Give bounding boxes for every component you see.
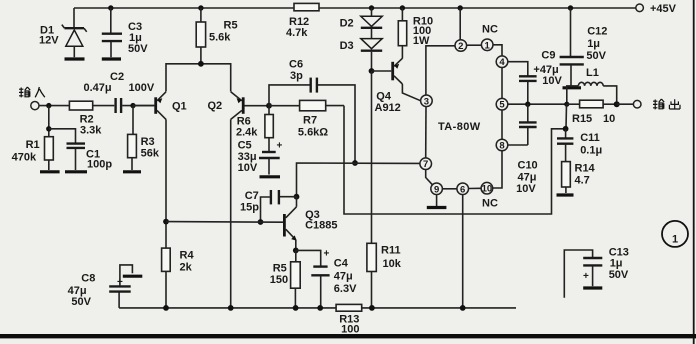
wire Q3 base line <box>166 221 283 224</box>
wire Q2 collector to bottom rail <box>230 119 232 308</box>
svg-text:C7: C7 <box>245 190 259 202</box>
wire driver line to pin7 <box>297 163 420 197</box>
svg-text:2.4k: 2.4k <box>236 127 258 139</box>
svg-text:5.6k: 5.6k <box>209 32 231 44</box>
wire bottom rail left segment <box>119 307 336 309</box>
svg-text:R11: R11 <box>381 245 401 257</box>
svg-text:3: 3 <box>424 96 429 107</box>
wire top supply rail left segment <box>74 7 294 9</box>
svg-text:150: 150 <box>270 274 288 286</box>
junction R11 bottom <box>369 305 375 311</box>
transistor Q4 <box>372 58 421 114</box>
capacitor C11 <box>557 129 602 162</box>
junction R5 150 bottom <box>293 305 299 311</box>
svg-text:0.47μ: 0.47μ <box>84 82 112 94</box>
resistor R12 <box>286 3 319 39</box>
svg-text:R5: R5 <box>273 263 287 275</box>
pin 1 NC <box>481 24 498 52</box>
capacitor C10 <box>516 104 538 195</box>
svg-text:1μ: 1μ <box>610 258 623 270</box>
svg-text:3p: 3p <box>290 70 303 82</box>
svg-text:Q4: Q4 <box>376 91 392 103</box>
diode D3 <box>340 39 383 71</box>
transistor Q2 <box>208 92 270 120</box>
svg-text:+: + <box>583 271 589 282</box>
wire pin8 to C10 <box>508 144 528 146</box>
wire pin10 to pin8 <box>493 151 502 188</box>
ground for C12 <box>563 86 582 89</box>
svg-text:10: 10 <box>603 113 615 125</box>
svg-text:6: 6 <box>460 184 465 195</box>
junction C3 on rail <box>108 5 113 10</box>
junction R1 tap <box>46 103 51 108</box>
svg-text:TA-80W: TA-80W <box>438 121 481 133</box>
svg-text:3.3k: 3.3k <box>80 125 102 137</box>
capacitor C1 <box>49 129 113 171</box>
junction C7 to base line <box>258 219 264 225</box>
svg-text:L1: L1 <box>586 67 599 79</box>
junction C9 C10 on output line <box>525 102 530 107</box>
junction pin6 bottom <box>460 305 466 311</box>
junction C12 on rail <box>568 5 573 10</box>
wire pin6 to pin10 <box>469 187 482 189</box>
junction Q3 emitter node <box>293 248 299 254</box>
junction output node <box>614 101 620 107</box>
svg-text:C1885: C1885 <box>305 220 337 232</box>
svg-text:10: 10 <box>482 184 493 195</box>
svg-text:D3: D3 <box>340 40 354 52</box>
wire pin5 output line <box>508 103 567 105</box>
ground for C8 <box>123 275 143 278</box>
svg-text:7: 7 <box>423 159 428 170</box>
pin 10 NC <box>481 182 498 209</box>
svg-text:100: 100 <box>341 324 359 336</box>
wire bottom rail right segment <box>362 307 516 309</box>
junction R5 on rail <box>198 5 203 10</box>
wire top supply rail right segment <box>319 7 636 9</box>
svg-text:12V: 12V <box>39 35 59 47</box>
label TA-80W <box>438 121 481 133</box>
junction C6 to driver line <box>352 160 358 166</box>
node input terminal 输入 <box>19 87 45 110</box>
svg-text:D2: D2 <box>340 18 354 30</box>
svg-text:R1: R1 <box>26 139 40 151</box>
pin 7 <box>420 158 432 170</box>
svg-text:1: 1 <box>672 234 678 246</box>
svg-text:R15: R15 <box>572 113 592 125</box>
pin 6 <box>457 183 469 195</box>
wire R7 feedback to output node <box>344 106 565 214</box>
zener diode D1 <box>39 8 87 57</box>
junction R3 tap <box>130 103 135 108</box>
svg-text:10V: 10V <box>238 162 258 174</box>
resistor R6 <box>236 106 273 152</box>
capacitor C8 <box>68 265 133 308</box>
resistor R13 <box>336 304 362 335</box>
wire input to R2 <box>39 105 69 107</box>
wire pin7 to pin9 <box>426 170 433 185</box>
junction Q2 collector bottom <box>228 305 234 311</box>
transistor Q3 <box>284 197 337 251</box>
svg-text:A912: A912 <box>375 102 401 114</box>
svg-text:C12: C12 <box>587 26 607 38</box>
svg-text:4.7: 4.7 <box>575 175 590 187</box>
wire pin6 to bottom rail <box>462 195 464 308</box>
node circled 1 marker <box>662 221 688 247</box>
wire Q1 collector / R4 branch <box>165 119 167 248</box>
wire rail to pin2 <box>459 8 461 40</box>
svg-text:NC: NC <box>482 24 498 36</box>
svg-text:C5: C5 <box>238 140 252 152</box>
svg-text:+: + <box>277 141 283 152</box>
svg-text:47μ: 47μ <box>334 271 353 283</box>
page border right <box>693 0 695 344</box>
svg-text:9: 9 <box>434 184 439 195</box>
svg-text:R5: R5 <box>224 20 238 32</box>
wire pin2 to pin1 <box>467 44 482 46</box>
junction R10 on rail <box>400 5 405 10</box>
svg-text:6.3V: 6.3V <box>334 283 357 295</box>
ground for R14 <box>557 193 574 196</box>
wire pin4 to C9 <box>508 62 528 76</box>
junction R6 at Q2 base <box>266 103 272 109</box>
resistor R4 <box>162 248 195 308</box>
ground for pin 9 <box>427 195 447 208</box>
svg-text:R7: R7 <box>303 115 317 127</box>
svg-text:C8: C8 <box>81 273 95 285</box>
junction D2 on rail <box>369 5 374 10</box>
pin 8 <box>496 139 508 151</box>
svg-text:5: 5 <box>499 100 505 111</box>
capacitor C6 <box>269 59 355 164</box>
junction Q3 base tap <box>163 219 169 225</box>
svg-text:10k: 10k <box>383 258 402 270</box>
svg-text:15p: 15p <box>240 202 259 214</box>
svg-text:R4: R4 <box>180 250 195 262</box>
svg-text:47μ: 47μ <box>518 172 537 184</box>
diode D2 <box>340 8 383 38</box>
svg-text:C4: C4 <box>334 258 349 270</box>
svg-text:Q2: Q2 <box>208 100 223 112</box>
svg-text:10V: 10V <box>542 75 562 87</box>
svg-text:1: 1 <box>485 40 491 51</box>
pin 9 <box>431 183 443 195</box>
svg-text:4: 4 <box>499 57 505 68</box>
resistor R3 <box>128 106 160 170</box>
svg-text:Q1: Q1 <box>172 101 187 113</box>
resistor R5 150 <box>270 250 300 308</box>
svg-text:+: + <box>324 249 330 260</box>
transistor Q1 <box>133 92 187 120</box>
resistor R14 <box>562 162 596 193</box>
wire differential pair emitter rail <box>166 64 231 92</box>
svg-text:8: 8 <box>499 141 504 152</box>
resistor R1 <box>12 106 54 170</box>
svg-text:1μ: 1μ <box>587 38 600 50</box>
wire to output terminal <box>617 103 634 105</box>
ground for C3 <box>102 57 121 60</box>
junction C7 collector node <box>294 194 300 200</box>
ground for C1 <box>65 170 87 173</box>
node +45V terminal <box>636 3 677 15</box>
svg-text:R3: R3 <box>141 136 155 148</box>
ground for R3 <box>123 170 141 173</box>
wire output node to zobel <box>565 104 568 129</box>
pin 2 <box>455 40 467 52</box>
resistor R10 <box>398 8 433 59</box>
capacitor C2 <box>84 71 155 113</box>
wire pin1 to pin4 <box>493 45 502 56</box>
capacitor C5 <box>238 140 283 175</box>
svg-text:5.6kΩ: 5.6kΩ <box>298 127 328 139</box>
wire pin9 to pin6 <box>442 188 457 190</box>
svg-text:2: 2 <box>458 41 463 52</box>
pin 5 <box>496 98 508 110</box>
svg-text:470k: 470k <box>12 152 37 164</box>
svg-text:0.1μ: 0.1μ <box>580 145 602 157</box>
svg-text:C2: C2 <box>110 71 124 83</box>
junction C4 bottom <box>317 305 323 311</box>
svg-text:4.7k: 4.7k <box>286 27 308 39</box>
svg-text:C9: C9 <box>541 50 555 62</box>
svg-text:C10: C10 <box>518 160 538 172</box>
svg-text:2k: 2k <box>180 262 193 274</box>
svg-text:R14: R14 <box>575 163 596 175</box>
ground for C5 <box>260 175 281 178</box>
resistor R7 <box>269 100 344 138</box>
svg-text:50V: 50V <box>586 50 606 62</box>
wire pin5 to pin8 <box>501 110 503 139</box>
resistor R11 <box>367 243 402 308</box>
wire pin3 to pin7 <box>425 107 427 158</box>
svg-text:50V: 50V <box>609 269 629 281</box>
junction zobel node <box>563 126 569 132</box>
junction R4 bottom <box>163 305 169 311</box>
svg-text:NC: NC <box>482 198 498 210</box>
junction D3 Q4 base node <box>369 68 375 74</box>
junction R5 to emitter rail <box>198 61 204 67</box>
pin 3 <box>421 95 433 107</box>
svg-text:+45V: +45V <box>650 3 677 15</box>
svg-text:C11: C11 <box>580 132 600 144</box>
ground for R1 <box>40 170 60 173</box>
svg-text:56k: 56k <box>141 148 160 160</box>
capacitor C3 <box>102 8 148 57</box>
wire bias node to R11 <box>371 71 373 243</box>
svg-text:+: + <box>117 277 123 288</box>
capacitor C7 <box>240 190 297 222</box>
wire pin4 to pin5 <box>501 68 503 99</box>
capacitor C13 note <box>564 247 629 298</box>
resistor R15 <box>567 100 617 125</box>
svg-text:10V: 10V <box>516 183 536 195</box>
capacitor C4 <box>296 249 357 308</box>
resistor R5 <box>196 8 237 64</box>
node output terminal 输出 <box>633 99 680 109</box>
page rule bottom <box>0 334 696 338</box>
svg-text:C6: C6 <box>289 59 303 71</box>
ground for D1 <box>65 57 85 60</box>
junction L1 left node <box>564 102 569 107</box>
wire pin2 to pin3 <box>426 46 455 95</box>
capacitor C12 <box>560 8 608 86</box>
capacitor C9 <box>519 50 563 105</box>
junction pin2 riser on rail <box>458 5 463 10</box>
svg-text:50V: 50V <box>128 43 148 55</box>
pin 4 <box>496 56 508 68</box>
resistor R2 <box>69 101 114 136</box>
svg-text:100V: 100V <box>129 82 155 94</box>
inductor L1 <box>567 67 617 104</box>
svg-text:100p: 100p <box>87 159 112 171</box>
svg-text:50V: 50V <box>71 296 91 308</box>
